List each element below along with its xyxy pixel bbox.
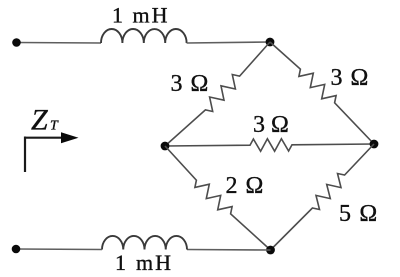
node C (right junction) bbox=[370, 140, 379, 149]
resistor R1 3 ohm upper-left bbox=[165, 42, 270, 146]
inductor L2 (bottom) bbox=[102, 236, 187, 250]
svg-text:1: 1 bbox=[112, 3, 123, 28]
svg-text:3 Ω: 3 Ω bbox=[331, 65, 370, 91]
svg-text:3 Ω: 3 Ω bbox=[253, 112, 289, 138]
svg-text:3 Ω: 3 Ω bbox=[171, 71, 210, 97]
svg-text:5 Ω: 5 Ω bbox=[339, 201, 378, 227]
ZT arrow horizontal line bbox=[24, 137, 64, 139]
wire top-left segment bbox=[17, 42, 102, 45]
terminal dot bottom-left bbox=[12, 245, 21, 254]
svg-text:T: T bbox=[50, 119, 59, 134]
svg-text:2 Ω: 2 Ω bbox=[226, 173, 265, 199]
node A (top junction) bbox=[266, 38, 275, 47]
wire bottom-left segment bbox=[16, 248, 102, 251]
resistor R4 2 ohm lower-left bbox=[165, 146, 271, 250]
resistor R3 3 ohm middle horizontal bbox=[165, 139, 374, 152]
node D (bottom junction) bbox=[266, 246, 275, 255]
resistor R2 3 ohm upper-right bbox=[270, 42, 374, 144]
wire top-right segment bbox=[187, 42, 270, 43]
label 1 mH (top) bbox=[112, 3, 170, 28]
ZT arrowhead bbox=[61, 132, 79, 143]
ZT arrow vertical line bbox=[24, 137, 26, 173]
svg-text:Z: Z bbox=[31, 104, 48, 137]
label 1 mH (bottom) bbox=[115, 250, 173, 275]
wire bottom-right segment bbox=[187, 249, 271, 252]
inductor L1 (top) bbox=[101, 29, 187, 43]
terminal dot top-left bbox=[12, 38, 21, 47]
node B (left junction) bbox=[161, 142, 170, 151]
svg-text:1: 1 bbox=[115, 250, 126, 275]
label ZT impedance bbox=[31, 104, 59, 137]
svg-text:mH: mH bbox=[133, 3, 170, 28]
svg-text:mH: mH bbox=[136, 250, 173, 275]
resistor R5 5 ohm lower-right bbox=[271, 144, 375, 250]
